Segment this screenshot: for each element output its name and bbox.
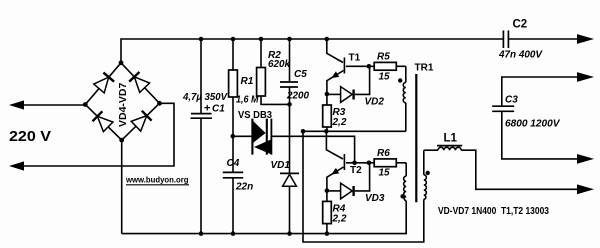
diode VD1 [280,172,299,174]
svg-text:L1: L1 [444,133,458,145]
resistor R2 [260,39,262,68]
node: lower AC arrow [9,161,24,170]
node: R2/C5 junction [287,102,292,107]
node: bottom rail C1 [199,231,204,236]
node: T2 base diac junction [352,161,357,166]
capacitor C3 [502,77,578,106]
svg-text:T2: T2 [350,165,362,176]
svg-text:6800 1200V: 6800 1200V [505,119,561,130]
svg-text:VS DB3: VS DB3 [238,110,272,121]
node: T2 emitter/VD3 junction [325,188,330,193]
svg-text:620k: 620k [268,59,290,70]
svg-text:2,2: 2,2 [332,117,347,128]
diode VD4 (top-left) [94,77,109,93]
transistor T2 [326,131,343,159]
resistor R6 [374,159,396,167]
node: bridge bottom [119,138,124,143]
diode VD7 (bottom-right) [131,116,147,131]
svg-text:VD2: VD2 [365,97,385,108]
diode VD5 (top-right) [134,77,149,93]
node: top rail output arrow [577,34,594,44]
node: lower winding phase dot [400,194,404,198]
wire: half-bridge midpoint line [303,130,406,132]
capacitor C4 [223,171,243,173]
transistor T1 [327,39,343,63]
diode VD6 (bottom-left) [97,116,113,131]
node: rail junction R2 [259,37,264,42]
capacitor C1 [200,39,202,113]
node: bottom rail VD1 [287,231,292,236]
svg-text:www.budyon.org: www.budyon.org [125,175,188,185]
node: bottom rail R4 [325,231,330,236]
svg-text:2200: 2200 [286,91,309,102]
node: bridge right [157,101,162,106]
node: rail junction C5 [287,37,292,42]
svg-text:VD4-VD7: VD4-VD7 [117,82,129,127]
transformer TR1 core [415,74,417,202]
svg-text:+: + [204,103,210,115]
diac VS DB3 [233,135,252,137]
node: midpoint/primary junction [301,129,306,134]
wire: diac to T2 base [272,136,355,163]
svg-text:C1: C1 [212,104,225,115]
svg-text:VD-VD7 1N400 T1,T2 13003: VD-VD7 1N400 T1,T2 13003 [438,206,549,217]
node: T1 emitter/VD2 junction [325,92,330,97]
node: T2 base junction [367,161,372,166]
svg-text:15: 15 [379,168,391,179]
wire: top +rail [121,39,503,63]
svg-text:C3: C3 [505,95,518,106]
node: rail junction R1 [231,37,236,42]
svg-text:R5: R5 [377,52,390,63]
svg-text:220 V: 220 V [9,128,51,145]
wire: bottom rail [122,201,407,234]
transformer TR1 primary winding [423,150,425,175]
resistor R3 [326,94,328,105]
resistor R5 [374,62,396,70]
node: rail junction T1 collector [325,37,330,42]
svg-text:R6: R6 [377,148,390,159]
svg-text:VD1: VD1 [271,160,291,171]
capacitor C2 [502,31,504,49]
svg-text:R1: R1 [241,76,254,87]
svg-text:C5: C5 [294,69,307,80]
svg-text:47n 400V: 47n 400V [498,50,543,61]
svg-text:VD3: VD3 [365,193,385,204]
svg-text:C2: C2 [513,19,528,31]
inductor L1 [424,149,438,151]
node: upper winding phase dot [398,78,402,82]
node: C3 top output arrow [577,72,594,82]
svg-text:C4: C4 [227,158,240,169]
svg-text:2,2: 2,2 [332,213,347,224]
node: rail junction C1 [199,37,204,42]
svg-text:1,6 M: 1,6 M [236,95,259,106]
node: bridge left [83,102,88,107]
node: L1 output arrow [577,184,594,194]
capacitor C5 [289,39,291,82]
diode VD2 [327,93,341,95]
node: C3 bottom output arrow [577,154,594,164]
node: midpoint/R3/T2 junction [324,129,329,134]
svg-text:22n: 22n [235,182,253,193]
diode VD3 [327,190,341,192]
transformer TR1 upper feedback winding [405,66,407,82]
node: R1/C4/diac junction [231,134,236,139]
resistor R4 [326,191,328,202]
wire: midpoint to primary winding bottom [303,131,424,242]
transformer TR1 lower feedback winding [405,163,407,176]
wire: bridge bottom to ground rail [121,140,123,234]
wire: 220V upper AC line [24,104,85,106]
node: T1 base junction [367,64,372,69]
svg-text:T1: T1 [349,53,361,64]
resistor R1 [232,39,234,70]
wire: 220V lower AC line to bridge right node [24,103,174,166]
node: bridge top [119,60,124,65]
bridge rectifier VD4-VD7 frame [85,63,159,140]
node: primary winding phase dot [426,171,430,175]
node: upper AC arrow [9,100,24,109]
node: bottom rail C4 [231,231,236,236]
svg-text:15: 15 [379,71,391,82]
svg-text:TR1: TR1 [415,63,434,74]
svg-text:4,7µ 350V: 4,7µ 350V [182,92,228,103]
